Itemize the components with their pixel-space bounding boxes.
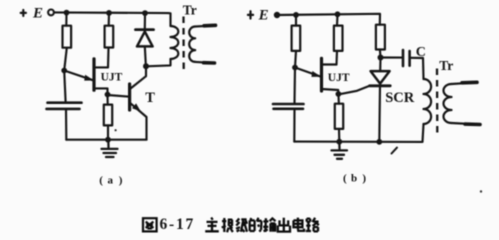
transistor UJT emitter (a)	[64, 71, 93, 81]
wire UJT base2 lead (a)	[94, 66, 108, 68]
transistor T base bar (a)	[128, 84, 131, 110]
wire rail to R2 (b)	[336, 14, 339, 25]
svg-text:(: (	[99, 174, 103, 186]
wire C2 to bottom rail (b)	[293, 109, 295, 141]
caption glyph 路	[306, 218, 319, 232]
svg-text:Tr: Tr	[183, 3, 197, 18]
diode D1 cathode bar (a)	[136, 28, 154, 31]
svg-text:Tr: Tr	[439, 58, 453, 73]
capacitor C2 (b)	[273, 104, 304, 109]
label plus sign (a)	[21, 10, 26, 16]
speck dot bottom right	[480, 190, 482, 192]
resistor R4 (b)	[335, 104, 343, 129]
caption glyph 的	[250, 218, 262, 232]
transistor T collector (a)	[130, 68, 146, 89]
speck tick mark below rail (b)	[392, 148, 398, 154]
svg-text:6-17: 6-17	[160, 216, 196, 233]
ground symbol (b)	[332, 142, 348, 159]
wire secondary top lead (b)	[452, 82, 478, 84]
wire secondary bottom lead (b)	[452, 123, 481, 125]
wire R3 to ground rail (a)	[107, 125, 109, 139]
svg-text:UJT: UJT	[101, 71, 123, 83]
transformer Tr core (b)	[436, 69, 439, 136]
wire node to capacitor C1 (a)	[64, 71, 65, 102]
wire R2 to UJT base2 (b)	[335, 51, 338, 65]
resistor R3 (b)	[376, 25, 385, 50]
svg-text:T: T	[145, 90, 155, 106]
wire node to SCR anode (b)	[379, 58, 381, 72]
resistor R2 (b)	[334, 26, 343, 51]
transistor UJT emitter (b)	[295, 68, 320, 77]
transistor T emitter (a)	[130, 103, 147, 140]
node junction rail-R1 (a)	[64, 10, 70, 16]
wire gate UJT B1 to SCR (b)	[338, 86, 370, 95]
node junction rail-R2 (a)	[106, 10, 112, 16]
wire R1 to node E (b)	[295, 51, 296, 68]
node junction rail-D1 (a)	[142, 10, 148, 16]
caption glyph 级	[236, 219, 247, 232]
node UJT B1 junction (a)	[105, 92, 111, 98]
node diode-collector junction (a)	[143, 63, 149, 69]
svg-text:SCR: SCR	[385, 90, 415, 106]
node UJT B1 junction (b)	[336, 91, 342, 97]
wire UJT base1 lead (a)	[94, 88, 108, 94]
caption glyph 图	[143, 218, 157, 231]
svg-text:): )	[119, 174, 123, 186]
resistor R3 (a)	[104, 105, 112, 126]
svg-text:(: (	[343, 172, 347, 184]
svg-text:): )	[362, 172, 366, 184]
caption glyph 主	[205, 218, 219, 232]
speck near R3 (a)	[115, 129, 117, 131]
node ground junction (a)	[105, 137, 111, 143]
wire R2 to UJT base2 (a)	[107, 48, 110, 68]
diode D1 triangle (a)	[137, 32, 153, 47]
UJT emitter arrowhead (a)	[84, 75, 94, 81]
wire bottom rail (a)	[66, 139, 146, 141]
wire secondary bottom lead (a)	[195, 62, 214, 63]
svg-text:b: b	[351, 172, 357, 184]
resistor R1 (b)	[292, 26, 301, 51]
node SCR-bottom rail junction (b)	[376, 139, 382, 145]
svg-text:E: E	[258, 7, 269, 23]
wire diode to junction (a)	[145, 46, 146, 66]
transformer Tr core (a)	[182, 17, 184, 71]
secondary top lead blob (b)	[462, 81, 477, 85]
wire B1 to T base (a)	[108, 95, 129, 97]
terminal +E (a)	[48, 10, 54, 16]
svg-text:E: E	[32, 5, 43, 21]
capacitor C1 (a)	[47, 103, 82, 109]
wire bottom rail (b)	[294, 124, 423, 142]
wire C to transformer primary top (b)	[411, 58, 424, 79]
capacitor C (b)	[403, 50, 410, 66]
caption glyph 出	[278, 218, 290, 232]
svg-text:UJT: UJT	[328, 72, 350, 84]
T emitter arrowhead (a)	[132, 103, 141, 111]
transformer Tr secondary winding (b)	[444, 84, 452, 123]
wire rail to R1 (a)	[65, 13, 67, 26]
wire top rail (b)	[277, 14, 380, 25]
caption glyph 输	[263, 218, 275, 232]
transformer Tr primary winding (a)	[171, 26, 179, 59]
wire top rail (a)	[54, 11, 168, 14]
wire B1 to R3 (a)	[106, 95, 108, 105]
wire SCR cathode to bottom rail (b)	[378, 86, 381, 142]
wire UJT base2 lead (b)	[322, 63, 337, 65]
node junction rail-R2 (b)	[335, 11, 341, 17]
terminal +E dot (b)	[274, 12, 280, 18]
node emitter tap (b)	[292, 65, 298, 71]
transistor UJT base bar (b)	[320, 58, 323, 91]
wire junction to transformer primary bottom (a)	[146, 59, 171, 66]
secondary bottom lead blob (a)	[204, 61, 215, 65]
resistor R2 (a)	[105, 26, 114, 48]
wire rail to R2 (a)	[108, 13, 110, 26]
wire C1 to bottom rail (a)	[65, 110, 67, 140]
wire R4 to ground rail (b)	[338, 129, 340, 142]
resistor R1 (a)	[63, 26, 72, 48]
transformer Tr primary winding (b)	[424, 79, 432, 124]
wire secondary top lead (a)	[195, 25, 215, 26]
SCR triangle (b)	[371, 71, 390, 84]
wire node to capacitor C (b)	[381, 56, 403, 58]
wire rail to diode (a)	[144, 13, 146, 29]
node emitter tap (a)	[61, 68, 67, 74]
label plus sign (b)	[248, 11, 253, 18]
node junction rail-R1 (b)	[293, 12, 299, 18]
svg-text:a: a	[108, 174, 114, 186]
wire UJT base1 lead (b)	[322, 89, 339, 94]
wire R1 to node E (a)	[64, 48, 67, 71]
caption glyph 振	[222, 218, 233, 232]
ground symbol (a)	[102, 140, 118, 157]
wire rail corner to transformer primary top (a)	[168, 13, 171, 26]
wire rail to R1 (b)	[295, 15, 297, 26]
UJT emitter arrowhead (b)	[311, 71, 321, 77]
transistor UJT base bar (a)	[92, 59, 95, 90]
wire node to capacitor C2 (b)	[293, 68, 296, 104]
secondary top lead blob (a)	[204, 23, 216, 27]
node SCR anode junction (b)	[378, 55, 384, 61]
wire R3 to SCR anode node (b)	[379, 50, 382, 58]
svg-text:C: C	[416, 45, 426, 60]
caption glyph 电	[294, 218, 305, 231]
secondary bottom lead blob (b)	[465, 122, 480, 126]
wire B1 to R4 (b)	[337, 94, 340, 104]
node ground junction (b)	[336, 139, 342, 145]
SCR cathode bar (b)	[370, 84, 391, 87]
transformer Tr secondary winding (a)	[189, 27, 195, 62]
